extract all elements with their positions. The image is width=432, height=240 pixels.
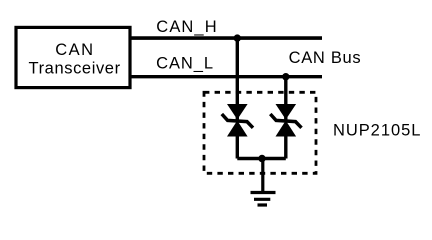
svg-text:CAN: CAN xyxy=(55,41,94,59)
svg-text:CAN Bus: CAN Bus xyxy=(289,49,362,67)
svg-text:Transceiver: Transceiver xyxy=(29,60,121,78)
svg-text:NUP2105L: NUP2105L xyxy=(333,122,421,140)
svg-text:CAN_H: CAN_H xyxy=(156,18,217,36)
svg-text:CAN_L: CAN_L xyxy=(156,54,214,72)
